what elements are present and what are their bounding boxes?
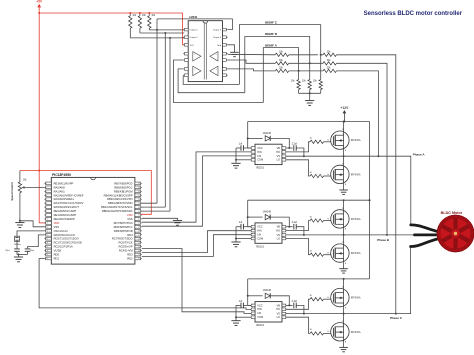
svg-text:RB4/AN11/KBI0/CSSPP: RB4/AN11/KBI0/CSSPP bbox=[104, 193, 133, 197]
wire RC4 to LIN3 bbox=[142, 249, 251, 314]
ground crystal caps bbox=[17, 254, 28, 256]
svg-text:22pf: 22pf bbox=[30, 250, 35, 252]
svg-text:RE1/AN6/CK2SPP: RE1/AN6/CK2SPP bbox=[54, 213, 77, 217]
wire 12V rail bbox=[248, 121, 370, 123]
pin IR2101 LIN bbox=[251, 155, 255, 158]
svg-text:RA3/AN3/VREF+: RA3/AN3/VREF+ bbox=[54, 197, 75, 201]
wire row3 to phase A bbox=[336, 71, 378, 156]
capacitor C11 2.2uf bootstrap bbox=[286, 147, 293, 149]
wire BEMF A to comparator minus input bbox=[174, 60, 264, 103]
svg-text:IR2101: IR2101 bbox=[256, 324, 265, 327]
svg-text:24: 24 bbox=[138, 246, 140, 248]
ground low side source bbox=[343, 341, 345, 347]
svg-text:1N4148: 1N4148 bbox=[263, 132, 272, 135]
resistor R12 10k divider A bbox=[320, 55, 322, 80]
svg-text:RA4/T0CKI/C1OUT/RCV: RA4/T0CKI/C1OUT/RCV bbox=[54, 201, 84, 205]
wire source to phase node bbox=[343, 307, 345, 314]
svg-text:Output 3: Output 3 bbox=[213, 29, 222, 32]
svg-text:RA0/AN0: RA0/AN0 bbox=[54, 185, 66, 189]
svg-text:RE2/AN7/OESPP: RE2/AN7/OESPP bbox=[54, 217, 75, 221]
wire comparator output 1 to pull-up R1 bbox=[129, 28, 131, 38]
svg-text:RD1: RD1 bbox=[54, 256, 60, 260]
svg-text:1: 1 bbox=[252, 146, 253, 148]
svg-text:IRF540A: IRF540A bbox=[351, 218, 361, 221]
svg-text:HIN: HIN bbox=[257, 150, 262, 154]
wire +5V top rail (red) bbox=[39, 12, 182, 14]
node comparator out C to PIC RB0 bbox=[169, 38, 171, 211]
svg-text:LIN: LIN bbox=[257, 311, 261, 315]
svg-text:LO: LO bbox=[277, 158, 280, 162]
pin PIC right 24 RC5/D+/VP bbox=[135, 245, 141, 248]
svg-text:12: 12 bbox=[46, 227, 48, 229]
svg-text:7: 7 bbox=[283, 229, 284, 231]
pin PIC left 5 RA3/AN3/VREF+ bbox=[46, 198, 52, 201]
svg-text:HO: HO bbox=[276, 229, 280, 233]
ground speed pot bbox=[19, 220, 21, 222]
wire drain to 12V rail bbox=[343, 122, 345, 132]
pin PIC right 21 RD2 bbox=[135, 257, 141, 260]
pin LM339 right bbox=[223, 28, 227, 31]
svg-text:HO: HO bbox=[276, 307, 280, 311]
wire BEMF C bbox=[239, 25, 320, 85]
driver U2 IR2101 bbox=[255, 144, 282, 164]
svg-text:RA2/AN2/VREF-/CVREF: RA2/AN2/VREF-/CVREF bbox=[54, 193, 84, 197]
svg-text:30: 30 bbox=[138, 223, 140, 225]
pin LM339 left bbox=[184, 28, 188, 31]
svg-text:23: 23 bbox=[138, 250, 140, 252]
svg-text:Output 4: Output 4 bbox=[213, 36, 222, 39]
ground PIC VSS right bbox=[142, 218, 178, 220]
wire comparator output line to pull-up R2 bbox=[139, 28, 141, 33]
crystal X1 20MHz bbox=[15, 236, 20, 241]
pin PIC left 11 VDD bbox=[46, 222, 52, 225]
svg-text:+12V: +12V bbox=[340, 106, 349, 110]
pin PIC right 30 RD7/SPP7/P1D bbox=[135, 222, 141, 225]
wire HO to gate resistor bbox=[286, 142, 310, 152]
pin IR2101 HIN bbox=[251, 151, 255, 154]
svg-text:LO: LO bbox=[277, 236, 280, 240]
pin PIC left 3 RA1/AN1 bbox=[46, 190, 52, 193]
svg-text:VDD: VDD bbox=[127, 213, 133, 217]
wire +5V to LM339 VCC (red) bbox=[183, 13, 185, 45]
pin IR2101 VB bbox=[282, 304, 286, 307]
wire rail down to VCC and diode bbox=[247, 122, 249, 149]
svg-text:2: 2 bbox=[252, 229, 253, 231]
svg-text:10: 10 bbox=[46, 219, 48, 221]
wire BEMF C to comparator minus input bbox=[183, 75, 239, 84]
svg-text:IRF540A: IRF540A bbox=[351, 173, 361, 176]
transistor Q3 IRF540 high side bbox=[331, 210, 349, 228]
pin IR2101 VCC bbox=[251, 304, 255, 307]
pin PIC left 18 VUSB bbox=[46, 249, 52, 252]
wire RD2 to LIN2 bbox=[142, 235, 251, 257]
motor lead phase A (thick) bbox=[411, 225, 439, 232]
svg-text:HIN: HIN bbox=[257, 229, 262, 233]
svg-text:5: 5 bbox=[283, 237, 284, 239]
comparator triangle left bbox=[193, 52, 201, 61]
svg-text:8: 8 bbox=[283, 225, 284, 227]
svg-text:RB5/KBI1/PGM: RB5/KBI1/PGM bbox=[114, 189, 133, 193]
svg-text:VS: VS bbox=[277, 312, 281, 316]
capacitor C15 2.2uf bootstrap bbox=[286, 304, 293, 306]
wire OSC2 to cap2 bbox=[28, 235, 45, 248]
pin IR2101 VS bbox=[282, 155, 286, 158]
svg-text:2: 2 bbox=[252, 150, 253, 152]
pin IR2101 VCC bbox=[251, 147, 255, 150]
pin LM339 right bbox=[223, 74, 227, 77]
pin LM339 left bbox=[184, 52, 188, 55]
svg-text:LM339: LM339 bbox=[189, 15, 198, 19]
svg-text:RB7/KBI3/PGD: RB7/KBI3/PGD bbox=[114, 181, 132, 185]
comparator triangle left bbox=[193, 66, 201, 75]
wire OSC1 to crystal bbox=[17, 231, 44, 236]
svg-text:1uf: 1uf bbox=[239, 221, 243, 224]
svg-text:4: 4 bbox=[252, 158, 253, 160]
svg-text:BEMF A: BEMF A bbox=[265, 43, 278, 47]
svg-text:RB0/AN12/INT0/SDI/SDA: RB0/AN12/INT0/SDI/SDA bbox=[102, 209, 133, 213]
pin PIC left 12 VSS bbox=[46, 226, 52, 229]
capacitor C13 2.2uf bootstrap bbox=[286, 226, 293, 228]
svg-text:RE3/MCLR/VPP: RE3/MCLR/VPP bbox=[54, 181, 74, 185]
svg-text:HO: HO bbox=[276, 150, 280, 154]
pin IR2101 VS bbox=[282, 312, 286, 315]
motor BLDC (red outrunner) bbox=[437, 215, 473, 251]
svg-text:RC7/RX/DT/SDO: RC7/RX/DT/SDO bbox=[112, 237, 133, 241]
ground low side source bbox=[343, 184, 345, 190]
resistor gate high side 10 bbox=[310, 219, 323, 222]
svg-text:1N4148: 1N4148 bbox=[263, 211, 272, 214]
wire comparator output 2 to pull-up R3 bbox=[148, 28, 150, 30]
svg-text:IRF540A: IRF540A bbox=[351, 331, 361, 334]
wire HO to gate resistor bbox=[286, 299, 310, 309]
svg-text:2.2uf: 2.2uf bbox=[292, 300, 298, 303]
wire 10k common rail bbox=[299, 92, 321, 94]
svg-text:39: 39 bbox=[138, 187, 140, 189]
motor lead phase B (thick) bbox=[415, 233, 440, 236]
svg-text:LIN: LIN bbox=[257, 154, 261, 158]
motor lead phase C (thick) bbox=[411, 239, 439, 247]
pin PIC left 14 RA6/OSC2/CLKO bbox=[46, 233, 52, 236]
svg-text:36: 36 bbox=[138, 199, 140, 201]
svg-text:35: 35 bbox=[138, 203, 140, 205]
resistor gate low side 10 bbox=[310, 174, 323, 177]
transistor Q2 IRF540 low side bbox=[331, 165, 349, 183]
svg-text:20: 20 bbox=[46, 258, 48, 260]
wire +5V left vertical to PIC VDD (red) bbox=[38, 13, 40, 223]
ground driver COM bbox=[236, 316, 251, 318]
pin PIC right 29 RD6/SPP6/P1C bbox=[135, 226, 141, 229]
transistor Q5 IRF540 high side bbox=[331, 288, 349, 306]
svg-text:IRF540A: IRF540A bbox=[351, 252, 361, 255]
svg-text:VB: VB bbox=[277, 146, 281, 150]
svg-text:RC1/T1OSI/CCP2/UOE: RC1/T1OSI/CCP2/UOE bbox=[54, 241, 83, 245]
svg-text:OSC1/CLKI: OSC1/CLKI bbox=[54, 229, 68, 233]
pin LM339 left bbox=[184, 68, 188, 71]
svg-text:VS: VS bbox=[277, 233, 281, 237]
power +5V supply arrow bbox=[38, 7, 40, 13]
pin PIC left 8 RE0/AN5/CK1SPP bbox=[46, 210, 52, 213]
svg-text:32: 32 bbox=[138, 215, 140, 217]
svg-text:18: 18 bbox=[46, 250, 48, 252]
ground BEMF dividers bbox=[309, 93, 311, 100]
svg-text:13: 13 bbox=[46, 231, 48, 233]
pin PIC left 9 RE1/AN6/CK2SPP bbox=[46, 214, 52, 217]
wire RD3 to HIN2 bbox=[142, 231, 251, 253]
svg-text:6: 6 bbox=[283, 233, 284, 235]
resistor R2 10k pull-up bbox=[138, 16, 141, 29]
pin PIC right 37 RB4/AN11/KBI0/CSSPP bbox=[135, 194, 141, 197]
svg-text:1: 1 bbox=[46, 183, 47, 185]
node comparator out B to PIC RB1 bbox=[164, 33, 166, 207]
svg-text:RA5/AN4/SS/C2OUT: RA5/AN4/SS/C2OUT bbox=[54, 205, 80, 209]
svg-text:16: 16 bbox=[46, 242, 48, 244]
wire comparator input row 3 bbox=[228, 69, 276, 71]
svg-text:8: 8 bbox=[46, 211, 47, 213]
pin LM339 left bbox=[184, 74, 188, 77]
svg-text:2.2uf: 2.2uf bbox=[292, 221, 298, 224]
svg-text:5: 5 bbox=[283, 316, 284, 318]
pin PIC right 31 VSS bbox=[135, 218, 141, 221]
svg-text:RD4: RD4 bbox=[127, 233, 133, 237]
svg-text:RD7/SPP7/P1D: RD7/SPP7/P1D bbox=[114, 221, 133, 225]
svg-text:VCC: VCC bbox=[190, 45, 195, 47]
svg-text:8: 8 bbox=[283, 304, 284, 306]
resistor R8 33k feed phase B bbox=[323, 62, 336, 65]
pin PIC left 4 RA2/AN2/VREF-/CVREF bbox=[46, 194, 52, 197]
wire VS pin to phase node bbox=[286, 155, 304, 157]
svg-text:RD6/SPP6/P1C: RD6/SPP6/P1C bbox=[114, 225, 133, 229]
svg-text:VCC: VCC bbox=[257, 303, 263, 307]
svg-text:1: 1 bbox=[252, 225, 253, 227]
power +12V supply arrow bbox=[343, 113, 345, 122]
pin PIC right 23 RC4/D-/VM bbox=[135, 249, 141, 252]
capacitor C2 22pf bbox=[25, 248, 31, 250]
resistor R10 10k divider C bbox=[298, 71, 300, 80]
wire phase C node bbox=[304, 247, 411, 314]
pin PIC right 35 RB2/AN8/INT2/VMO bbox=[135, 202, 141, 205]
svg-text:RA1/AN1: RA1/AN1 bbox=[54, 189, 66, 193]
pin LM339 right bbox=[223, 59, 227, 62]
capacitor C1 22pf bbox=[14, 248, 20, 250]
svg-text:COM: COM bbox=[257, 236, 263, 240]
svg-text:VCC: VCC bbox=[257, 225, 263, 229]
wire phase B node bbox=[304, 234, 418, 236]
pin IR2101 COM bbox=[251, 237, 255, 240]
svg-text:RD0: RD0 bbox=[54, 253, 60, 257]
svg-text:Speed Control: Speed Control bbox=[10, 182, 14, 201]
wire low drain to phase node bbox=[343, 235, 345, 244]
wire comparator input row 2 bbox=[228, 60, 276, 63]
wire low drain to phase node bbox=[343, 314, 345, 323]
pin LM339 left bbox=[184, 44, 188, 47]
pin PIC left 1 RE3/MCLR/VPP bbox=[46, 182, 52, 185]
svg-text:7: 7 bbox=[283, 150, 284, 152]
pin IR2101 HO bbox=[282, 229, 286, 232]
svg-text:RB1/AN10/INT1/SCK/SCL: RB1/AN10/INT1/SCK/SCL bbox=[101, 205, 133, 209]
svg-text:17: 17 bbox=[46, 246, 48, 248]
pin LM339 right bbox=[223, 44, 227, 47]
wire comparator output 3 over IC top bbox=[157, 19, 232, 30]
svg-text:VB: VB bbox=[277, 225, 281, 229]
resistor gate low side 10 bbox=[310, 332, 323, 335]
ground driver COM bbox=[236, 238, 251, 240]
svg-text:VCC: VCC bbox=[257, 146, 263, 150]
svg-text:VS: VS bbox=[277, 154, 281, 158]
wire pot ground to VSS bbox=[20, 221, 45, 227]
wire drain to 12V rail bbox=[343, 200, 345, 210]
wire low drain to phase node bbox=[343, 156, 345, 165]
pin PIC right 39 RB6/KBI2/PGC bbox=[135, 186, 141, 189]
svg-text:Phase C: Phase C bbox=[390, 316, 403, 320]
wire rail down to VCC and diode bbox=[247, 200, 249, 227]
resistor gate high side 10 bbox=[310, 298, 323, 301]
svg-text:4: 4 bbox=[252, 316, 253, 318]
pin PIC right 33 RB0/AN12/INT0/SDI/SDA bbox=[135, 210, 141, 213]
pin IR2101 VCC bbox=[251, 225, 255, 228]
wire source to phase node bbox=[343, 228, 345, 235]
svg-text:33: 33 bbox=[138, 211, 140, 213]
ground driver COM bbox=[236, 159, 251, 161]
svg-text:27: 27 bbox=[138, 234, 140, 236]
pin PIC left 13 OSC1/CLKI bbox=[46, 229, 52, 232]
svg-text:IR2101: IR2101 bbox=[256, 167, 265, 170]
svg-text:2: 2 bbox=[46, 187, 47, 189]
svg-text:31: 31 bbox=[138, 219, 140, 221]
svg-text:28: 28 bbox=[138, 231, 140, 233]
svg-text:3: 3 bbox=[252, 154, 253, 156]
ground LM339 bbox=[228, 45, 235, 53]
svg-text:RB2/AN8/INT2/VMO: RB2/AN8/INT2/VMO bbox=[108, 201, 133, 205]
wire VS pin to phase node bbox=[286, 234, 304, 236]
svg-text:11: 11 bbox=[46, 223, 48, 225]
wire +5V branch to speed pot and right-side VDD (red) bbox=[20, 171, 151, 215]
wire BEMF A bbox=[263, 48, 298, 103]
wire HO to gate resistor bbox=[286, 221, 310, 231]
svg-text:7: 7 bbox=[283, 308, 284, 310]
resistor R3 10k pull-up bbox=[148, 16, 151, 29]
wire BEMF B to comparator minus input bbox=[178, 69, 245, 93]
wire VS pin to phase node bbox=[286, 313, 304, 315]
svg-text:LIN: LIN bbox=[257, 233, 261, 237]
wire crystal to caps bbox=[16, 241, 18, 248]
wire phase A node bbox=[304, 156, 411, 225]
svg-text:Phase A: Phase A bbox=[413, 153, 426, 157]
svg-text:9: 9 bbox=[46, 215, 47, 217]
pin PIC right 28 RD5/SPP5/P1B bbox=[135, 229, 141, 232]
svg-text:RB6/KBI2/PGC: RB6/KBI2/PGC bbox=[114, 185, 132, 189]
pot wiper arrow bbox=[22, 187, 25, 189]
pin PIC left 2 RA0/AN0 bbox=[46, 186, 52, 189]
svg-text:IR2101: IR2101 bbox=[256, 245, 265, 248]
svg-text:BEMF B: BEMF B bbox=[265, 32, 278, 36]
svg-text:6: 6 bbox=[283, 155, 284, 157]
pin IR2101 HO bbox=[282, 151, 286, 154]
comparator triangle right bbox=[210, 52, 218, 61]
wire LO to gate resistor bbox=[286, 160, 310, 176]
svg-text:Sensorless BLDC motor controll: Sensorless BLDC motor controller bbox=[364, 10, 463, 17]
pin PIC left 17 RC2/CCP1/P1A bbox=[46, 245, 52, 248]
svg-text:RA6/OSC2/CLKO: RA6/OSC2/CLKO bbox=[54, 233, 75, 237]
svg-text:1uf: 1uf bbox=[239, 300, 243, 303]
comparator triangle right bbox=[210, 66, 218, 75]
svg-text:34: 34 bbox=[138, 207, 140, 209]
pin IR2101 COM bbox=[251, 159, 255, 162]
svg-text:RC2/CCP1/P1A: RC2/CCP1/P1A bbox=[54, 245, 73, 249]
driver U4 IR2101 bbox=[255, 302, 282, 322]
pin PIC right 34 RB1/AN10/INT1/SCK/SCL bbox=[135, 206, 141, 209]
svg-text:22pf: 22pf bbox=[5, 250, 10, 252]
wire 12V rail 1 corner down bbox=[369, 199, 371, 201]
svg-text:7: 7 bbox=[46, 207, 47, 209]
svg-text:RC4/D-/VM: RC4/D-/VM bbox=[119, 249, 133, 253]
pin IR2101 LO bbox=[282, 237, 286, 240]
svg-text:Output 1: Output 1 bbox=[190, 36, 199, 39]
pin PIC right 40 RB7/KBI3/PGD bbox=[135, 182, 141, 185]
pin IR2101 LIN bbox=[251, 312, 255, 315]
wire RD1 to HIN3 bbox=[39, 259, 251, 310]
wire BEMF B bbox=[245, 37, 310, 93]
diode D3 1N4148 bootstrap bbox=[247, 295, 249, 297]
resistor R7 33k feed phase C bbox=[321, 54, 323, 56]
svg-text:IRF540A: IRF540A bbox=[351, 139, 361, 142]
node divider B bbox=[289, 62, 323, 64]
driver U3 IR2101 bbox=[255, 223, 282, 243]
svg-text:1N4148: 1N4148 bbox=[263, 289, 272, 292]
pin PIC right 22 RD3 bbox=[135, 253, 141, 256]
svg-text:2.2uf: 2.2uf bbox=[292, 142, 298, 145]
pin IR2101 LIN bbox=[251, 233, 255, 236]
svg-text:29: 29 bbox=[138, 227, 140, 229]
pin PIC left 16 RC1/T1OSI/CCP2/UOE bbox=[46, 241, 52, 244]
node divider A bbox=[289, 70, 323, 72]
pin IR2101 VS bbox=[282, 234, 286, 237]
svg-text:RD2: RD2 bbox=[127, 256, 133, 260]
svg-text:8: 8 bbox=[283, 146, 284, 148]
svg-text:21: 21 bbox=[138, 258, 140, 260]
wire LO to gate resistor bbox=[286, 317, 310, 333]
node divider C bbox=[289, 54, 318, 56]
pin LM339 right bbox=[223, 52, 227, 55]
wire row1 to phase C bbox=[336, 55, 395, 314]
svg-text:BLDC Motor: BLDC Motor bbox=[441, 211, 463, 215]
pin IR2101 LO bbox=[282, 316, 286, 319]
svg-text:COM: COM bbox=[257, 158, 263, 162]
svg-text:RC5/D+/VP: RC5/D+/VP bbox=[119, 245, 133, 249]
junction +5V branch bbox=[38, 170, 40, 172]
capacitor C14 1uf VCC decoupling bbox=[243, 304, 251, 306]
svg-text:PIC18F4550: PIC18F4550 bbox=[52, 173, 71, 177]
svg-text:IRF540A: IRF540A bbox=[351, 297, 361, 300]
pin IR2101 VB bbox=[282, 225, 286, 228]
svg-text:3: 3 bbox=[46, 191, 47, 193]
svg-text:37: 37 bbox=[138, 195, 140, 197]
svg-text:RC0/T1OSO/T13CKI: RC0/T1OSO/T13CKI bbox=[54, 237, 79, 241]
transistor Q6 IRF540 low side bbox=[331, 323, 349, 341]
resistor R5 33k divider bbox=[275, 62, 288, 65]
diode D1 1N4148 bootstrap bbox=[247, 137, 249, 139]
wire source to phase node bbox=[343, 149, 345, 156]
svg-text:1: 1 bbox=[252, 304, 253, 306]
resistor R11 10k divider B bbox=[309, 63, 311, 79]
svg-text:RE0/AN5/CK1SPP: RE0/AN5/CK1SPP bbox=[54, 209, 77, 213]
svg-text:3: 3 bbox=[252, 233, 253, 235]
pin IR2101 HIN bbox=[251, 308, 255, 311]
svg-text:6: 6 bbox=[46, 203, 47, 205]
svg-text:5: 5 bbox=[283, 158, 284, 160]
capacitor C12 1uf VCC decoupling bbox=[243, 226, 251, 228]
svg-text:RD5/SPP5/P1B: RD5/SPP5/P1B bbox=[114, 229, 133, 233]
transistor Q1 IRF540 high side bbox=[331, 131, 349, 149]
